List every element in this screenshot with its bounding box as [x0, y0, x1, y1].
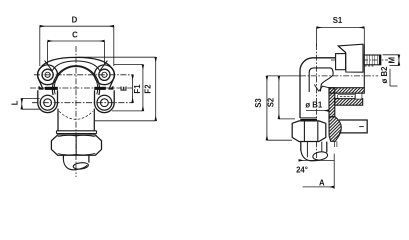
dimension B2 vertical	[389, 69, 391, 86]
flange section wall	[329, 88, 335, 117]
hidden sag curve	[59, 111, 93, 119]
centerline split horizontal	[30, 87, 133, 89]
dimension S3	[266, 76, 268, 140]
svg-text:ø B2: ø B2	[380, 66, 389, 84]
split wedge outer right	[109, 86, 114, 90]
lower bolt circles right	[97, 95, 112, 110]
tube break curl	[63, 159, 87, 169]
cone seat curve	[320, 75, 333, 92]
stud body	[364, 55, 381, 65]
hex nut right view	[292, 121, 326, 142]
lower bolt circles left	[40, 95, 55, 110]
upper bolt boss left circles	[38, 65, 58, 85]
neck right wire	[93, 109, 95, 131]
dimension F2	[155, 57, 157, 121]
elbow outer contour	[300, 58, 336, 118]
svg-text:A: A	[319, 178, 325, 187]
gland fold line	[338, 46, 346, 53]
o-ring groove white	[337, 94, 355, 98]
split gap black bar right	[94, 87, 106, 90]
dimension L	[21, 98, 23, 109]
clamp arch inner band	[52, 61, 100, 71]
dimension M bottom ext	[390, 64, 400, 66]
dimension F1	[142, 65, 144, 111]
dimension B1 leader	[306, 110, 329, 112]
port pipe boss	[339, 120, 367, 133]
svg-text:S2: S2	[266, 97, 275, 107]
tube break loop	[73, 162, 89, 170]
dimension S2	[278, 76, 280, 119]
centerline port axis	[300, 75, 378, 77]
bolt centerline over stud	[363, 59, 382, 61]
elbow inner bore contour	[309, 68, 333, 92]
svg-text:C: C	[72, 30, 78, 39]
centerline lower bolt row	[32, 102, 133, 104]
arch shoulder facet right	[100, 61, 107, 70]
svg-text:ø B1: ø B1	[305, 101, 323, 110]
dimension C	[48, 40, 105, 42]
dimension M line	[398, 55, 400, 66]
dimension A extension	[333, 154, 335, 189]
seat tooth line	[314, 85, 329, 92]
centerline bolt axis	[331, 59, 388, 61]
leg washer line	[300, 117, 317, 119]
dimension M top ext	[383, 54, 400, 56]
stud threads	[367, 55, 377, 64]
hex nut center flat line	[75, 135, 77, 155]
flange section bar2	[335, 99, 363, 106]
svg-text:E: E	[119, 86, 128, 91]
split gap black bar left	[45, 87, 58, 90]
clamp upper half outline	[38, 57, 115, 89]
svg-text:M: M	[388, 57, 397, 64]
svg-text:D: D	[72, 15, 78, 24]
tube break loop right	[312, 151, 328, 161]
upper bolt boss right circles	[95, 65, 115, 85]
hex nut left view	[51, 135, 101, 155]
lower lobe right	[95, 90, 115, 112]
dimension B2 horizontal	[390, 85, 398, 87]
saddle bore inner arc	[54, 67, 97, 95]
lower lobe left	[38, 90, 58, 112]
flange section hatched bar1	[329, 88, 364, 94]
boot tip ticks	[334, 141, 337, 147]
centerline upper bolt row	[34, 74, 133, 76]
dimension D	[40, 25, 114, 27]
stud end cap	[379, 55, 381, 65]
washer collar	[57, 131, 97, 134]
gland left block	[336, 54, 346, 70]
gland trapezoid	[338, 44, 363, 72]
tube break curl right	[301, 150, 323, 161]
centerline vertical right view	[316, 44, 318, 160]
svg-text:24°: 24°	[296, 165, 308, 174]
notch white	[355, 93, 362, 99]
clamp boot hatched	[329, 117, 341, 142]
svg-text:F1: F1	[133, 84, 142, 94]
S2 S3 shared top extension	[267, 75, 300, 77]
neck left wire	[57, 109, 59, 131]
centerline vertical left view	[75, 46, 77, 177]
nut flat lines	[304, 121, 317, 142]
dimension 24deg leader	[299, 159, 335, 161]
arch shoulder facet left	[45, 61, 52, 70]
dimension S1	[317, 27, 365, 29]
split wedge outer left	[39, 86, 44, 90]
swivel tube right view	[301, 142, 327, 153]
groove hidden dashes	[340, 95, 355, 97]
dimension E	[132, 75, 134, 103]
flange face line	[363, 45, 365, 88]
svg-text:F2: F2	[143, 84, 152, 94]
pipe center tick	[359, 126, 364, 128]
hex nut chamfer arcs	[58, 135, 96, 154]
svg-text:S1: S1	[333, 16, 343, 25]
dimension A line	[303, 186, 335, 188]
tube cone lines	[307, 142, 321, 158]
svg-text:S3: S3	[254, 98, 263, 108]
tube stem	[63, 155, 89, 162]
svg-text:L: L	[11, 100, 20, 105]
saddle bore outer arc	[52, 66, 99, 95]
stud hidden root line	[364, 65, 373, 67]
leg washer dark bar	[300, 119, 317, 121]
